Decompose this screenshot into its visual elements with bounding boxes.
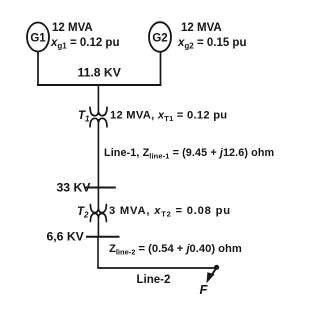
bus 6.6 KV	[86, 236, 120, 238]
wire 6.6 KV bus down to Line-2	[97, 237, 99, 268]
svg-text:12 MVA: 12 MVA	[181, 22, 222, 34]
wire 11.8 KV bus to T1	[97, 85, 99, 115]
fault junction dot	[214, 265, 219, 270]
wire G1 to 11.8 KV bus	[37, 52, 39, 86]
svg-text:Line-1, Zline-1 = (9.45 + j12.: Line-1, Zline-1 = (9.45 + j12.6) ohm	[104, 147, 274, 160]
generator G2 rating label	[177, 22, 246, 51]
wire T1 to 33 KV bus	[97, 119, 99, 188]
wire 33 KV bus to T2	[97, 188, 99, 212]
wire Line-2	[97, 267, 215, 269]
generator G1 rating label	[50, 22, 119, 51]
svg-text:6,6 KV: 6,6 KV	[47, 230, 85, 244]
svg-text:Line-2: Line-2	[137, 274, 171, 286]
bus 11.8 KV	[37, 84, 161, 86]
svg-text:33 KV: 33 KV	[57, 181, 92, 195]
bus 33 KV	[86, 187, 116, 189]
wire T2 to 6.6 KV bus	[97, 216, 99, 237]
generator G1	[27, 23, 49, 52]
svg-text:11.8 KV: 11.8 KV	[78, 66, 122, 80]
transformer T2	[90, 205, 106, 222]
generator G2	[149, 22, 171, 52]
svg-text:G1: G1	[30, 33, 46, 45]
transformer T1	[90, 107, 107, 127]
wire G2 to 11.8 KV bus	[160, 52, 162, 85]
fault arrow	[207, 269, 217, 284]
svg-text:G2: G2	[152, 33, 167, 45]
svg-text:12 MVA: 12 MVA	[52, 22, 93, 34]
svg-text:F: F	[200, 282, 209, 297]
